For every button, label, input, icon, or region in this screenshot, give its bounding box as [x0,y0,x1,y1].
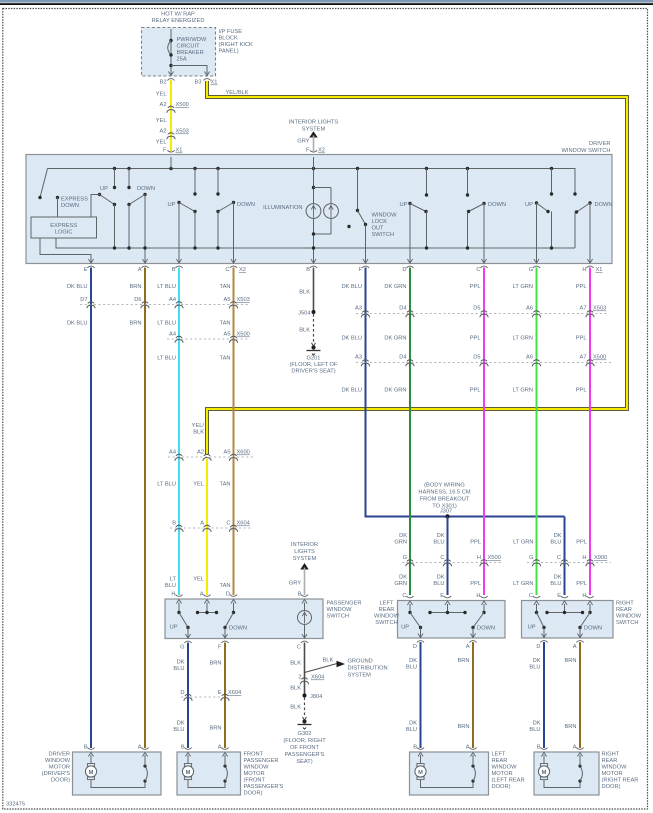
svg-text:TAN: TAN [220,321,231,327]
right rear motor pins B A [537,745,548,757]
svg-text:PPL: PPL [576,336,587,342]
label DRIVER WINDOW MOTOR [42,752,71,784]
passenger motor pins B A [181,745,192,757]
svg-text:B: B [413,745,417,751]
connector X604 row front passenger motor [180,690,241,701]
svg-text:BRN: BRN [457,658,469,664]
svg-text:WINDOW: WINDOW [374,614,400,620]
svg-text:M: M [186,770,191,776]
svg-text:OF FRONT: OF FRONT [290,745,320,751]
connector X600 row [168,450,253,461]
svg-text:LT BLU: LT BLU [157,356,176,362]
svg-text:D: D [226,592,230,598]
svg-text:DK GRN: DK GRN [384,284,406,290]
svg-text:BLU: BLU [529,665,540,671]
svg-text:BRN: BRN [209,661,221,667]
ground G201 [290,343,338,375]
express logic box [31,217,97,238]
svg-text:LT BLU: LT BLU [157,482,176,488]
svg-text:G201: G201 [307,356,321,362]
svg-text:A4: A4 [169,297,176,303]
svg-text:D4: D4 [399,355,406,361]
wire DK BLU pin F to J307 splice [366,268,565,517]
svg-text:PPL: PPL [470,336,481,342]
switch right rear DOWN [573,192,612,263]
svg-text:A6: A6 [526,306,533,312]
label YEL/BLK on passenger feed [192,423,205,436]
svg-text:(BODY WIRING: (BODY WIRING [424,483,465,489]
svg-text:PASSENGER: PASSENGER [327,601,362,607]
svg-text:(FRONT: (FRONT [244,778,266,784]
svg-text:D4: D4 [399,306,406,312]
svg-text:A: A [466,644,470,650]
svg-text:DK: DK [554,575,562,581]
left rear switch DOWN [471,604,495,638]
svg-text:DK: DK [409,721,417,727]
svg-text:C: C [297,645,301,651]
svg-text:X500: X500 [488,555,501,561]
svg-text:PPL: PPL [470,540,481,546]
wire DK BLU pin E to driver motor [90,268,92,749]
svg-text:DK: DK [399,533,407,539]
svg-text:PANEL): PANEL) [219,49,239,55]
connector X900 row rear right [527,555,611,566]
switch driver window DOWN [127,169,155,264]
svg-text:(RIGHT KICK: (RIGHT KICK [219,42,254,48]
svg-text:B: B [537,745,541,751]
svg-text:BLOCK: BLOCK [219,36,238,42]
svg-text:HOT W/ RAP: HOT W/ RAP [161,12,195,18]
passenger switch UP [170,603,190,639]
svg-text:LIGHTS: LIGHTS [294,549,315,555]
label PASSENGER WINDOW SWITCH [327,601,362,620]
switch driver window UP [91,169,116,249]
label RIGHT REAR WINDOW MOTOR [602,752,639,791]
svg-text:BLU: BLU [433,581,444,587]
switch passenger window UP [168,169,197,264]
svg-text:RIGHT: RIGHT [616,601,634,607]
svg-text:H: H [171,592,175,598]
svg-text:SYSTEM: SYSTEM [348,673,372,679]
switch left rear UP [400,169,429,264]
svg-text:BLU: BLU [173,666,184,672]
wire BLK branch to ground distribution system [305,658,388,679]
svg-text:DK: DK [437,533,445,539]
svg-text:SWITCH: SWITCH [616,620,638,626]
svg-text:A2: A2 [197,450,204,456]
label DRIVER WINDOW SWITCH [562,141,611,154]
wire labels above rear motors [406,721,577,734]
svg-text:D: D [402,267,406,273]
svg-text:G302: G302 [298,731,312,737]
svg-text:FRONT: FRONT [244,752,264,758]
driver switch bottom pins [84,259,95,273]
svg-text:LT GRN: LT GRN [513,581,533,587]
wire labels row 2 left [67,321,231,327]
svg-text:DISTRIBUTION: DISTRIBUTION [348,666,388,672]
svg-text:A6: A6 [526,355,533,361]
svg-text:M: M [418,770,423,776]
connector X500 pin A2 [160,102,189,113]
right rear window motor box [534,752,599,795]
splice J307 [445,514,449,518]
svg-text:LT GRN: LT GRN [513,388,533,394]
left rear switch bottom pins D A [413,634,424,651]
right rear switch UP [528,604,546,638]
svg-text:YEL: YEL [193,577,204,583]
svg-text:A: A [466,745,470,751]
svg-text:MOTOR: MOTOR [492,771,513,777]
svg-text:DK: DK [177,660,185,666]
svg-text:UP: UP [168,202,176,208]
svg-text:PPL: PPL [470,284,481,290]
svg-text:DK: DK [437,575,445,581]
svg-text:BLU: BLU [165,583,176,589]
page frame top black line [0,3,653,5]
svg-text:B: B [181,745,185,751]
label LEFT REAR WINDOW MOTOR [492,752,525,791]
svg-text:(DRIVER'S: (DRIVER'S [42,771,70,777]
svg-text:25A: 25A [177,57,187,63]
wire DK BLU passenger switch to motor [187,643,189,749]
svg-text:D5: D5 [473,306,480,312]
svg-text:X503: X503 [237,297,250,303]
passenger switch feed bus [196,603,218,615]
svg-text:YEL: YEL [156,140,167,146]
svg-text:D: D [536,644,540,650]
wire BLK pin B to G201 [313,268,315,313]
motor M right rear [538,755,582,788]
svg-text:UP: UP [170,625,178,631]
svg-text:C: C [440,555,444,561]
left rear window motor box [410,752,489,795]
svg-text:BLU: BLU [406,727,417,733]
pin B3 X1 [195,72,218,86]
motor M left rear [415,755,476,788]
svg-text:UP: UP [401,625,409,631]
wire labels above X604 [157,482,230,488]
svg-text:I/P FUSE: I/P FUSE [219,29,243,35]
svg-text:A3: A3 [355,306,362,312]
connector X604 row [170,521,253,532]
passenger switch DOWN [223,603,247,639]
left rear switch top pins C E H [402,593,413,605]
svg-text:WINDOW: WINDOW [45,758,71,764]
svg-text:LT GRN: LT GRN [513,284,533,290]
svg-text:X604: X604 [237,521,250,527]
svg-text:BRN: BRN [457,724,469,730]
wire TAN pin C to passenger switch [233,268,235,596]
svg-text:M: M [542,770,547,776]
svg-text:LT GRN: LT GRN [513,540,533,546]
svg-text:B: B [298,592,302,598]
motor M driver [85,755,147,788]
svg-text:BLK: BLK [299,328,310,334]
svg-text:DK: DK [409,658,417,664]
left rear motor pins B A [413,745,424,757]
svg-text:EXPRESS: EXPRESS [61,197,88,203]
wire DK BLU J307 to right rear switch [564,517,566,596]
svg-text:J307: J307 [440,509,452,515]
svg-text:H: H [582,555,586,561]
svg-text:(FLOOR, RIGHT: (FLOOR, RIGHT [283,738,326,744]
svg-text:A3: A3 [355,355,362,361]
svg-text:PWR/WDW: PWR/WDW [177,37,207,43]
right rear switch feed bus [545,604,584,614]
node interior lights system feed GRY [289,120,339,152]
svg-text:2: 2 [298,675,301,681]
wire LT BLU pin B to passenger switch [178,268,180,596]
svg-text:TAN: TAN [220,356,231,362]
svg-text:BREAKER: BREAKER [177,50,204,56]
svg-text:GRN: GRN [394,581,407,587]
switch passenger window DOWN [216,169,255,264]
svg-text:YEL: YEL [193,482,204,488]
svg-text:H: H [582,593,586,599]
svg-text:X900: X900 [594,555,607,561]
svg-text:WINDOW SWITCH: WINDOW SWITCH [562,148,611,154]
svg-text:YEL: YEL [156,92,167,98]
wire LT GRN pin G to right rear switch [536,268,538,596]
connector X503 row right [355,306,608,318]
svg-text:E: E [440,593,444,599]
svg-text:UP: UP [528,625,536,631]
svg-text:E: E [557,593,561,599]
svg-text:B: B [172,267,176,273]
svg-text:D7: D7 [80,297,87,303]
svg-text:DK: DK [533,658,541,664]
svg-text:SYSTEM: SYSTEM [293,556,317,562]
page frame top blue bar [0,0,653,3]
svg-text:PPL: PPL [576,284,587,290]
svg-text:PPL: PPL [470,388,481,394]
svg-text:YEL/BLK: YEL/BLK [226,90,249,96]
svg-text:BLU: BLU [529,727,540,733]
svg-text:TAN: TAN [220,482,231,488]
wire PPL pin C to left rear switch [483,268,485,596]
label I/P FUSE BLOCK (RIGHT KICK PANEL) [219,29,254,55]
svg-text:BLK: BLK [290,686,301,692]
svg-text:C: C [476,267,480,273]
svg-text:B: B [306,267,310,273]
svg-text:LOCK: LOCK [372,219,388,225]
svg-text:F: F [218,645,222,651]
svg-text:X600: X600 [237,450,250,456]
svg-text:F: F [359,267,363,273]
svg-text:D: D [180,690,184,696]
svg-text:BLK: BLK [299,290,310,296]
svg-text:PPL: PPL [470,581,481,587]
svg-text:A7: A7 [580,355,587,361]
svg-text:A5: A5 [224,297,231,303]
label FRONT PASSENGER WINDOW MOTOR [244,752,284,797]
svg-text:X1: X1 [176,148,183,154]
svg-text:HARNESS, 16.5 CM: HARNESS, 16.5 CM [418,490,470,496]
svg-text:OUT: OUT [372,226,385,232]
svg-text:BLU: BLU [433,540,444,546]
svg-text:C: C [529,593,533,599]
wire DK BLU right rear switch to motor [543,642,545,748]
svg-text:BRN: BRN [129,321,141,327]
svg-text:J804: J804 [310,694,322,700]
svg-text:DK: DK [177,721,185,727]
driver motor pins B A [84,745,95,757]
svg-text:X1: X1 [211,80,218,86]
svg-text:WINDOW: WINDOW [492,765,518,771]
svg-text:TAN: TAN [220,284,231,290]
svg-text:YEL: YEL [156,118,167,124]
svg-text:X500: X500 [176,102,189,108]
wire labels above rear connector row [394,533,587,546]
splice J804 [303,694,323,701]
svg-text:SEAT): SEAT) [296,759,312,765]
svg-text:DK: DK [533,721,541,727]
svg-text:MOTOR: MOTOR [49,765,70,771]
svg-text:X503: X503 [593,306,606,312]
svg-text:BLU: BLU [173,727,184,733]
label LEFT REAR WINDOW SWITCH [374,601,400,627]
svg-text:DOOR): DOOR) [492,784,511,790]
switch express down [38,169,88,218]
svg-text:A: A [200,521,204,527]
svg-text:DOOR): DOOR) [244,791,263,797]
wire YEL below X600 [206,459,208,595]
circuit breaker PWR/WDW 25A [168,29,207,76]
svg-text:LOGIC: LOGIC [55,230,73,236]
svg-text:FROM BREAKOUT: FROM BREAKOUT [420,497,470,503]
svg-text:D6: D6 [134,297,141,303]
svg-text:(LEFT REAR: (LEFT REAR [492,778,525,784]
svg-text:DOWN: DOWN [595,202,613,208]
svg-text:DOWN: DOWN [237,202,255,208]
svg-text:DK BLU: DK BLU [67,321,88,327]
svg-text:PPL: PPL [576,388,587,394]
pin F X2 driver switch top [306,148,325,160]
svg-text:X500: X500 [593,355,606,361]
svg-text:BRN: BRN [564,724,576,730]
svg-text:LT BLU: LT BLU [157,321,176,327]
svg-text:F: F [163,148,167,154]
svg-text:C: C [402,593,406,599]
svg-text:DRIVER: DRIVER [49,752,71,758]
node interior lights system feed passenger [289,542,318,595]
connector X500 row right [355,355,612,367]
label RIGHT REAR WINDOW SWITCH [616,601,642,627]
svg-text:DOWN: DOWN [584,626,602,632]
svg-text:A: A [200,592,204,598]
svg-text:BLU: BLU [550,581,561,587]
connector X503 pin A2 [160,129,189,140]
connector X604 pin 2 on BLK [298,675,324,685]
svg-text:G: G [403,555,407,561]
svg-text:DOWN: DOWN [137,186,155,192]
svg-text:DK GRN: DK GRN [384,336,406,342]
svg-text:GRY: GRY [289,581,301,587]
svg-text:G: G [529,555,533,561]
svg-text:BRN: BRN [129,284,141,290]
svg-text:REAR: REAR [492,758,508,764]
svg-text:X500: X500 [237,332,250,338]
wire BLK dashed to ground [313,314,315,342]
driver window motor box [73,752,162,795]
wire labels below rear connector row [394,575,587,588]
wire BRN passenger switch to motor [224,643,226,749]
svg-text:(RIGHT REAR: (RIGHT REAR [602,778,639,784]
svg-text:DOOR): DOOR) [51,778,70,784]
svg-text:DK BLU: DK BLU [67,284,88,290]
svg-text:CIRCUIT: CIRCUIT [177,44,201,50]
svg-text:A: A [138,267,142,273]
wire YEL/BLK from B3 across top and down right side [207,81,627,455]
svg-text:LT BLU: LT BLU [157,284,176,290]
svg-text:(FLOOR, LEFT OF: (FLOOR, LEFT OF [290,362,338,368]
svg-text:REAR: REAR [379,607,395,613]
svg-text:UP: UP [525,202,533,208]
svg-text:GRY: GRY [297,139,309,145]
svg-text:DOWN: DOWN [477,626,495,632]
svg-text:LEFT: LEFT [380,601,394,607]
svg-text:LT: LT [170,577,177,583]
svg-text:B: B [172,521,176,527]
svg-text:DK: DK [399,575,407,581]
svg-text:BLU: BLU [550,540,561,546]
svg-text:C: C [226,521,230,527]
svg-text:PASSENGER'S: PASSENGER'S [244,784,284,790]
pin F X1 driver switch top [163,148,182,160]
svg-text:TAN: TAN [220,583,231,589]
wire labels row 3 right [341,388,586,394]
svg-text:WINDOW: WINDOW [327,607,353,613]
svg-text:H: H [476,593,480,599]
svg-text:F: F [306,148,310,154]
switch left rear DOWN [466,169,506,264]
switch window lock out [347,169,397,264]
svg-text:A2: A2 [160,129,167,135]
svg-text:A: A [218,745,222,751]
left rear window switch box [398,601,506,639]
wire labels row 3 left [157,356,230,362]
svg-text:H: H [477,555,481,561]
svg-text:X2: X2 [239,267,246,273]
svg-text:GROUND: GROUND [348,659,373,665]
wire DK GRN pin D to left rear switch [409,268,411,596]
svg-text:WINDOW: WINDOW [244,765,270,771]
svg-text:PPL: PPL [576,540,587,546]
wire labels above passenger switch [165,577,231,590]
svg-text:B3: B3 [195,80,202,86]
svg-text:BRN: BRN [564,658,576,664]
passenger window switch box [165,599,323,639]
splice J504 [298,310,315,317]
svg-text:X1: X1 [596,267,603,273]
wire DK BLU J307 to left rear switch [447,517,449,596]
svg-text:DK BLU: DK BLU [341,284,362,290]
left rear switch feed bus [428,604,466,614]
wire labels row 2 right [341,336,586,342]
connector X500 row left [167,332,250,343]
svg-text:DK BLU: DK BLU [341,388,362,394]
svg-text:J504: J504 [298,311,310,317]
passenger switch bottom pins G F C [180,634,192,651]
wire ground bus [56,238,575,248]
right rear window switch box [522,601,614,639]
svg-text:A: A [573,745,577,751]
illumination lamps [263,157,338,264]
svg-text:G: G [529,267,533,273]
wire YEL entry stub [170,157,172,169]
passenger switch illumination lamp [298,603,312,639]
wire top bus [48,169,576,195]
